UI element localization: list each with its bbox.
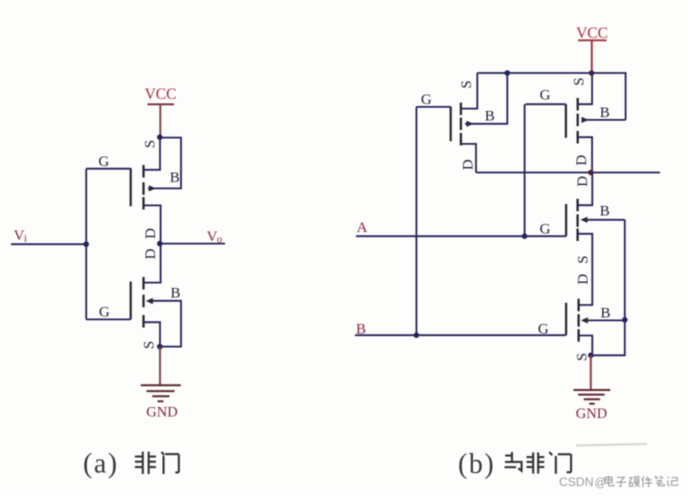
svg-text:G: G	[540, 222, 551, 238]
node bulk tie junction Q3	[505, 70, 511, 76]
node source junction (b)	[588, 353, 594, 359]
caption (b) NAND gate	[458, 449, 571, 480]
svg-text:A: A	[357, 220, 368, 236]
ground symbol (a)	[141, 385, 181, 401]
net B input label	[356, 322, 366, 338]
svg-text:(a): (a)	[83, 449, 119, 480]
pin label D Q2	[143, 248, 159, 259]
transistor Q2 NMOS body (a)	[131, 277, 153, 328]
wire input Vi	[11, 243, 86, 245]
node output junction (b)	[588, 170, 594, 176]
svg-text:D: D	[461, 159, 477, 170]
pin label B Q6	[600, 306, 610, 322]
pin label G Q3	[421, 92, 432, 108]
svg-text:S: S	[574, 353, 590, 361]
transistor Q1 PMOS body (a)	[131, 165, 156, 210]
watermark CSDN text	[559, 475, 606, 490]
wire drain lead Q1	[144, 205, 161, 243]
wire VCC rail (b)	[477, 73, 625, 120]
svg-text:GND: GND	[576, 406, 607, 422]
wire bulk tie Q2	[153, 301, 182, 347]
pin label S Q6	[574, 353, 590, 361]
svg-text:CSDN: CSDN	[559, 475, 594, 489]
svg-text:G: G	[538, 322, 549, 338]
svg-text:B: B	[600, 204, 610, 220]
wire source lead Q4	[578, 73, 592, 104]
transistor Q6 NMOS body (b lower)	[566, 299, 588, 342]
svg-text:B: B	[170, 170, 180, 186]
wire input A	[356, 235, 566, 237]
wire bulk lead Q6	[588, 319, 625, 321]
pin label G Q5	[540, 222, 551, 238]
watermark dian glyph	[605, 476, 614, 486]
svg-text:B: B	[600, 306, 610, 322]
wire to ground (b)	[590, 355, 592, 390]
wire to ground (a)	[159, 347, 161, 385]
pin label B Q1	[170, 170, 180, 186]
node output junction (a)	[157, 241, 163, 247]
transistor Q4 PMOS body (b right)	[566, 98, 589, 144]
watermark jian glyph	[642, 476, 653, 487]
node S1 junction (a)	[157, 134, 163, 140]
wire bulk rail (b)	[591, 220, 625, 355]
pin label D Q1	[143, 228, 159, 239]
svg-text:V: V	[14, 228, 25, 244]
wire output net (b)	[476, 172, 660, 174]
wire source lead Q3	[461, 73, 477, 109]
pin label S Q5	[575, 255, 591, 263]
svg-text:S: S	[575, 255, 591, 263]
wire source lead Q2	[144, 322, 161, 346]
svg-text:D: D	[143, 248, 159, 259]
svg-text:G: G	[98, 154, 109, 170]
net GND label (a)	[146, 405, 177, 421]
svg-text:i: i	[24, 234, 27, 245]
wire drain lead Q4	[578, 137, 592, 172]
net A input label	[357, 220, 368, 236]
node S2 junction (a)	[157, 344, 163, 350]
wire source lead Q6	[579, 336, 593, 356]
node VCC junction (b)	[589, 70, 595, 76]
wire drain lead Q3	[461, 144, 476, 173]
wire gate lead Q2	[86, 318, 131, 320]
wire A to gate Q4	[524, 104, 526, 236]
wire B to gate Q3	[415, 107, 417, 335]
pin label D Q4	[574, 155, 590, 166]
node B junction	[414, 332, 420, 338]
watermark zi glyph	[616, 477, 626, 487]
wire VCC to rail (b)	[591, 40, 593, 73]
svg-text:o: o	[217, 235, 222, 246]
svg-text:B: B	[485, 109, 495, 125]
node bulk rail junction	[622, 317, 628, 323]
wire gate lead Q3	[416, 106, 450, 108]
svg-text:(b): (b)	[458, 449, 495, 480]
wire drain lead Q5	[578, 173, 593, 206]
svg-text:D: D	[143, 228, 159, 239]
pin label G Q2	[99, 305, 110, 321]
svg-text:S: S	[143, 140, 159, 148]
wire bulk tie Q4	[582, 119, 626, 121]
wire drain lead Q2	[144, 244, 161, 283]
svg-text:S: S	[459, 80, 475, 88]
svg-text:D: D	[575, 274, 591, 285]
pin label D Q5	[575, 176, 591, 187]
net VCC label (b)	[576, 25, 608, 42]
wire VCC to source node (a)	[159, 104, 161, 136]
svg-text:G: G	[99, 305, 110, 321]
svg-text:GND: GND	[146, 405, 177, 421]
wire gate bus vertical (a)	[85, 169, 87, 320]
pin label D Q6	[575, 274, 591, 285]
pin label D Q3	[461, 159, 477, 170]
pin label G Q6	[538, 322, 549, 338]
net VCC label (a)	[145, 86, 177, 104]
pin label S Q2	[142, 341, 158, 349]
svg-text:G: G	[421, 92, 432, 108]
net Vo output label	[207, 229, 223, 246]
pin label G Q1	[98, 154, 109, 170]
caption (a) NOT gate	[83, 449, 179, 480]
svg-text:VCC: VCC	[145, 86, 177, 103]
wire bulk tie Q1	[148, 138, 181, 189]
ground symbol (b)	[574, 390, 611, 404]
net GND label (b)	[576, 406, 607, 422]
wire input B	[355, 334, 566, 336]
svg-text:@: @	[595, 478, 607, 490]
node input junction	[83, 241, 89, 247]
svg-text:B: B	[170, 286, 180, 302]
pin label S Q3	[459, 80, 475, 88]
svg-text:S: S	[571, 77, 587, 85]
pin label G Q4	[540, 88, 551, 104]
pin label B Q3	[485, 109, 495, 125]
svg-text:D: D	[574, 155, 590, 166]
wire source lead Q1	[144, 137, 161, 170]
pin label B Q5	[600, 204, 610, 220]
svg-text:D: D	[575, 176, 591, 187]
wire bulk tie Q3	[465, 73, 507, 124]
pin label S Q1	[143, 140, 159, 148]
wire gate lead Q1	[86, 168, 131, 170]
watermark bi glyph	[655, 476, 665, 486]
watermark ji glyph	[668, 477, 678, 487]
wire bulk lead Q5	[587, 219, 625, 221]
pin label B Q4	[600, 105, 610, 121]
pin label S Q4	[571, 77, 587, 85]
transistor Q5 NMOS body (b upper)	[566, 199, 587, 241]
wire output Vo	[161, 243, 225, 245]
node A junction	[522, 233, 528, 239]
svg-text:G: G	[540, 88, 551, 104]
net Vi input label	[14, 228, 27, 245]
transistor Q3 PMOS body (b left)	[451, 103, 474, 146]
watermark ying glyph	[629, 477, 640, 487]
caption smudge artifact	[576, 444, 647, 446]
svg-text:B: B	[600, 105, 610, 121]
wire source to drain link Q5-Q6	[578, 234, 593, 305]
svg-text:S: S	[142, 341, 158, 349]
pin label B Q2	[170, 286, 180, 302]
wire gate lead Q4	[525, 103, 566, 105]
